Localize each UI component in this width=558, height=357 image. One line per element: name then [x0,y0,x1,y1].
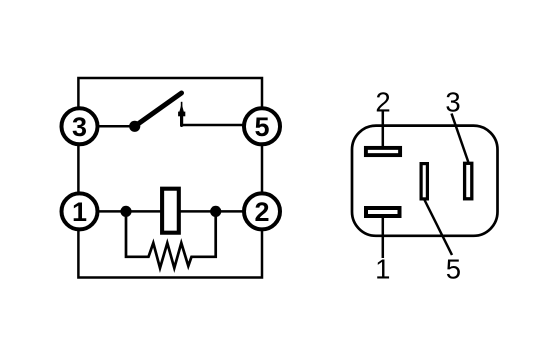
svg-text:1: 1 [72,197,87,227]
svg-text:3: 3 [445,87,460,118]
svg-text:2: 2 [375,87,390,118]
svg-text:2: 2 [254,197,269,227]
svg-text:5: 5 [446,254,461,285]
svg-text:1: 1 [375,254,390,285]
svg-text:3: 3 [72,112,87,142]
svg-text:5: 5 [254,112,269,142]
